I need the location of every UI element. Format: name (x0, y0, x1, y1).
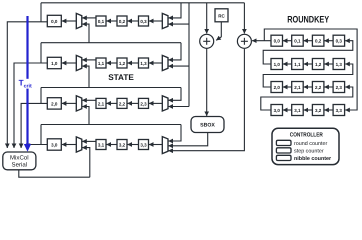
wire into xor X2 top (243, 3, 245, 34)
svg-text:3,1: 3,1 (294, 108, 301, 113)
Tcrit blue line lower segment (26, 89, 28, 145)
svg-text:Serial: Serial (12, 161, 28, 168)
svg-text:RC: RC (218, 13, 225, 18)
wire 1,1 out to mux M11 top input (82, 59, 96, 61)
wire shiftrows bus (188, 3, 190, 107)
wire riser row3-top to mux M21 bottom input (82, 107, 89, 125)
nibble counter box (276, 155, 291, 160)
register 2,1 (96, 98, 106, 108)
svg-text:3,3: 3,3 (336, 108, 343, 113)
svg-text:0,0: 0,0 (274, 39, 281, 44)
register 3,0 (47, 139, 61, 150)
register 0,3 (139, 16, 149, 26)
key register 3,2 (312, 105, 324, 116)
svg-text:1,0: 1,0 (274, 62, 281, 67)
register 3,2 (117, 140, 127, 150)
svg-text:1,3: 1,3 (336, 62, 343, 67)
svg-text:0,0: 0,0 (51, 19, 58, 24)
wire RC to xor X1 (216, 22, 221, 41)
mux M11 (76, 55, 82, 70)
wire row0 output left + down to MixCol (7, 22, 47, 148)
svg-text:MixCol: MixCol (10, 154, 29, 161)
round counter box (276, 140, 291, 145)
wire row3 feedback up branch (40, 125, 42, 145)
register 2,2 (117, 98, 127, 108)
key register 0,2 (312, 35, 324, 46)
wire row3 top feedback (41, 124, 181, 126)
wire 2,1 out to mux M21 top input (82, 99, 96, 101)
wire mux M21 out to 2,0 (62, 102, 77, 104)
register 0,1 (96, 16, 106, 26)
wire row3 output left + down to MixCol (28, 145, 47, 149)
svg-text:1,2: 1,2 (119, 61, 126, 66)
wire row2 feedback up branch (40, 88, 42, 104)
wire row2 top feedback (41, 87, 181, 89)
register 2,0 (47, 98, 61, 109)
svg-text:0,2: 0,2 (119, 19, 126, 24)
wire mux M11 out to 1,0 (62, 62, 77, 64)
svg-text:0,3: 0,3 (140, 19, 147, 24)
key register 2,2 (312, 82, 324, 93)
wire 2,3 to 2,2 (127, 102, 138, 104)
SBOX (191, 117, 224, 133)
key register 1,2 (312, 59, 324, 70)
wire key 0,3 to 0,2 (324, 40, 333, 42)
wire 3,2 to 3,1 (106, 144, 117, 146)
wire key 1,1 to 1,0 (283, 63, 292, 65)
wire sbox-out to mux M32 middle input (168, 133, 207, 146)
wire key 0,1 to 0,0 (283, 40, 292, 42)
wire mux M02 out to 0,3 (149, 20, 162, 22)
register 0,2 (117, 16, 127, 26)
wire 0,1 out to mux M01 top input (82, 17, 96, 19)
svg-text:3,0: 3,0 (51, 143, 58, 148)
key register 0,1 (292, 35, 304, 46)
xor gate X2 (237, 34, 251, 48)
svg-text:3,1: 3,1 (98, 142, 105, 147)
mux M01 (76, 13, 82, 28)
register 1,0 (47, 57, 61, 68)
wire bus to mux M02 bottom input (168, 23, 189, 25)
MixCol Serial block (3, 152, 36, 170)
register 1,1 (96, 58, 106, 68)
wire 0,3 to 0,2 (127, 20, 138, 22)
svg-text:STATE: STATE (108, 73, 134, 82)
svg-text:0,1: 0,1 (294, 39, 301, 44)
wire key rotate: row0 out up over to 3,3 (264, 29, 357, 110)
wire bus to mux M12 bottom input (168, 65, 189, 67)
key register 2,1 (292, 82, 304, 93)
wire key 0,2 to 0,1 (304, 40, 313, 42)
wire row0 top feedback to XORs (41, 2, 244, 4)
register 2,3 (139, 98, 149, 108)
wire mux M22 out to 2,3 (149, 102, 162, 104)
svg-text:2,2: 2,2 (119, 101, 126, 106)
wire riser row2-top to mux M22 top input (168, 88, 181, 101)
mux M21 (76, 96, 82, 111)
wire row1 feedback up branch (40, 43, 42, 63)
wire key 3,1 to 3,0 (283, 109, 292, 111)
wire into xor X1 top (206, 3, 208, 34)
key register 1,3 (333, 59, 345, 70)
wire riser row1-top to mux M01 bottom input (82, 24, 89, 43)
svg-text:3,3: 3,3 (140, 142, 147, 147)
key register 1,1 (292, 59, 304, 70)
svg-text:1,0: 1,0 (51, 61, 58, 66)
svg-text:0,1: 0,1 (98, 19, 105, 24)
register 3,3 (139, 140, 149, 150)
mux M32 (162, 137, 168, 154)
wire key 1,2 to 1,1 (304, 63, 313, 65)
RC box (215, 9, 228, 22)
wire mux M12 out to 1,3 (149, 62, 162, 64)
key register 3,3 (333, 105, 345, 116)
wire 1,2 to 1,1 (106, 62, 117, 64)
svg-text:3,2: 3,2 (119, 142, 126, 147)
wire 3,1 out to mux M31 top input (82, 140, 96, 142)
key register 0,0 (271, 35, 283, 46)
wire key row1 out around to 0,3 (263, 41, 353, 64)
wire mux M32 out to 3,3 (149, 144, 162, 146)
svg-text:1,3: 1,3 (140, 61, 147, 66)
svg-text:2,1: 2,1 (98, 101, 105, 106)
svg-text:3,0: 3,0 (274, 108, 281, 113)
key register 0,3 (333, 35, 345, 46)
svg-text:ROUNDKEY: ROUNDKEY (287, 15, 330, 26)
wire MixCol out bottom to row3 mux riser (19, 170, 90, 177)
key register 3,1 (292, 105, 304, 116)
wire key 2,1 to 2,0 (283, 86, 292, 88)
wire key row3 out around to 2,3 (261, 87, 353, 110)
mux M22 (162, 96, 168, 111)
Tcrit blue arrowhead (24, 144, 31, 152)
xor gate X1 (200, 34, 214, 48)
mux M12 (162, 55, 168, 70)
wire key 2,2 to 2,1 (304, 86, 313, 88)
key register 2,0 (271, 82, 283, 93)
wire riser row3-top to mux M32 top input (168, 125, 181, 142)
wire bus to mux M22 bottom input (168, 106, 189, 108)
register 3,1 (96, 140, 106, 150)
key register 3,0 (271, 105, 283, 116)
key register 1,0 (271, 59, 283, 70)
wire row1 output left + down to MixCol (14, 63, 47, 148)
wire mux M01 out to 0,0 (62, 20, 77, 22)
svg-text:1,1: 1,1 (294, 62, 301, 67)
wire row0 feedback up branch (40, 3, 42, 22)
svg-text:0,2: 0,2 (315, 39, 322, 44)
wire riser MixCol-out to mux M31 bottom input (82, 148, 90, 178)
wire key row2 out around to 1,3 (263, 64, 353, 87)
wire 1,3 to 1,2 (127, 62, 138, 64)
mux M31 (76, 137, 82, 152)
Tcrit blue critical path line (26, 16, 28, 79)
svg-text:2,1: 2,1 (294, 85, 301, 90)
wire row1 top feedback (41, 42, 181, 44)
svg-text:2,0: 2,0 (51, 101, 58, 106)
wire key 2,3 to 2,2 (324, 86, 333, 88)
svg-text:1,1: 1,1 (98, 61, 105, 66)
wire mux M31 out to 3,0 (62, 144, 77, 146)
CONTROLLER box (272, 128, 339, 164)
wire 3,3 to 3,2 (127, 144, 138, 146)
register 1,2 (117, 58, 127, 68)
wire key 1,3 to 1,2 (324, 63, 333, 65)
svg-text:2,2: 2,2 (315, 85, 322, 90)
wire xor X1 out to SBOX (206, 49, 208, 116)
wire riser row2-top to mux M11 bottom input (82, 66, 89, 87)
register 0,0 (47, 15, 61, 26)
svg-text:3,2: 3,2 (315, 108, 322, 113)
wire 0,2 to 0,1 (106, 20, 117, 22)
svg-text:2,0: 2,0 (274, 85, 281, 90)
wire riser row0-top to mux M02 top input (168, 3, 181, 18)
svg-text:SBOX: SBOX (200, 123, 215, 129)
step counter box (276, 148, 291, 153)
mux M02 (162, 13, 168, 28)
register 1,3 (139, 58, 149, 68)
svg-text:0,3: 0,3 (336, 39, 343, 44)
svg-text:1,2: 1,2 (315, 62, 322, 67)
wire 2,2 to 2,1 (106, 102, 117, 104)
svg-text:round counter: round counter (294, 141, 327, 147)
svg-text:step counter: step counter (294, 149, 324, 155)
key register 2,3 (333, 82, 345, 93)
svg-text:2,3: 2,3 (140, 101, 147, 106)
svg-text:nibble counter: nibble counter (294, 156, 332, 162)
svg-text:CONTROLLER: CONTROLLER (290, 131, 324, 138)
wire riser row1-top to mux M12 top input (168, 43, 181, 60)
wire key 3,2 to 3,1 (304, 109, 313, 111)
wire key row0 out to xor X2 (252, 40, 271, 42)
svg-text:2,3: 2,3 (336, 85, 343, 90)
wire row2 output left + down to MixCol (21, 103, 47, 148)
wire xor2-out to mux M32 bottom input (168, 49, 244, 151)
wire key 3,3 to 3,2 (324, 109, 333, 111)
